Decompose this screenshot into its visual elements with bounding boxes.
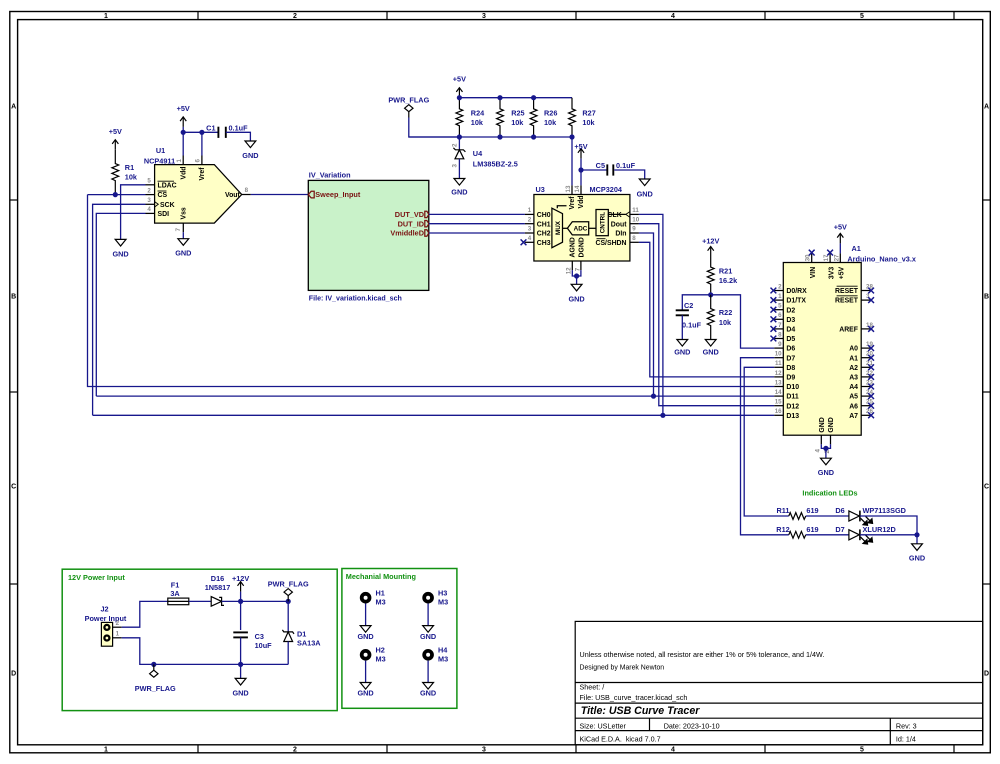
- no-connect X on VIN: [809, 250, 815, 256]
- frame row letters: [11, 104, 989, 678]
- svg-text:CLK: CLK: [608, 212, 622, 219]
- ground (H2): [360, 683, 371, 690]
- ground (C5): [639, 179, 650, 186]
- junction +5V rail R24: [457, 95, 462, 100]
- svg-text:10k: 10k: [471, 118, 484, 127]
- power flag PWR_FLAG (Vref rail): [405, 105, 413, 118]
- svg-text:Vdd: Vdd: [180, 166, 187, 179]
- svg-text:7: 7: [175, 227, 182, 231]
- wire D7 to R12: [741, 358, 789, 535]
- svg-text:A: A: [984, 104, 989, 111]
- svg-text:D11: D11: [786, 394, 798, 401]
- sheet pin VmiddleD: [425, 230, 429, 236]
- junction +5V rail R26: [531, 95, 536, 100]
- mounting hole H4: [424, 651, 432, 659]
- svg-text:5: 5: [860, 747, 864, 754]
- svg-text:16: 16: [775, 408, 782, 415]
- no-connect X on CH3: [521, 239, 527, 245]
- junction ground rail PWR_FLAG: [151, 662, 156, 667]
- svg-text:CH1: CH1: [537, 221, 551, 228]
- wire U3 AGND/DGND join: [572, 270, 581, 276]
- U3 top pin stubs Vref Vdd: [572, 185, 581, 194]
- svg-text:3A: 3A: [170, 589, 180, 598]
- title block outline: [575, 621, 983, 744]
- LED D6 WP7113SGD: [849, 511, 860, 522]
- svg-text:3: 3: [528, 226, 532, 233]
- svg-text:GND: GND: [819, 417, 826, 432]
- svg-text:1N5817: 1N5817: [205, 583, 231, 592]
- svg-text:MUX: MUX: [555, 220, 562, 235]
- graphic box Mechanical Mounting: [342, 569, 457, 709]
- no-connect X: [868, 412, 874, 418]
- junction Vref tap: [199, 130, 204, 135]
- ground (U4): [454, 179, 465, 186]
- svg-text:4: 4: [147, 206, 151, 213]
- op-amp style DAC U1 MCP4911 body: [155, 165, 242, 224]
- wire +5V to U3 Vdd: [580, 159, 582, 186]
- svg-text:D9: D9: [786, 375, 795, 382]
- svg-text:CS: CS: [158, 192, 168, 199]
- svg-text:PWR_FLAG: PWR_FLAG: [135, 684, 176, 693]
- svg-text:11: 11: [775, 360, 782, 367]
- wire H1 to ground: [365, 604, 367, 626]
- svg-text:LDAC: LDAC: [158, 182, 177, 189]
- svg-text:IV_Variation: IV_Variation: [309, 171, 351, 180]
- svg-text:9: 9: [632, 226, 636, 233]
- svg-text:A0: A0: [849, 346, 858, 353]
- svg-text:+5V: +5V: [574, 142, 587, 151]
- svg-text:9: 9: [778, 341, 782, 348]
- svg-text:2: 2: [528, 216, 532, 223]
- svg-text:4: 4: [528, 235, 532, 242]
- IC U3 MCP3204 body: [534, 195, 630, 262]
- svg-text:C3: C3: [255, 632, 264, 641]
- svg-text:C1: C1: [206, 123, 215, 132]
- svg-text:2: 2: [778, 283, 782, 290]
- ground (H3): [423, 626, 434, 633]
- svg-text:R24: R24: [471, 108, 485, 117]
- svg-text:Vdd: Vdd: [578, 195, 585, 208]
- svg-text:+12V: +12V: [702, 237, 719, 246]
- svg-text:PWR_FLAG: PWR_FLAG: [388, 95, 429, 104]
- svg-text:Vss: Vss: [181, 207, 188, 219]
- svg-text:GND: GND: [420, 689, 436, 698]
- svg-text:+12V: +12V: [232, 574, 249, 583]
- frame column numbers: [104, 13, 864, 753]
- svg-text:Designed by Marek Newton: Designed by Marek Newton: [580, 665, 665, 672]
- wire U1 Vout to sheet Sweep_Input: [251, 194, 308, 196]
- no-connect X: [868, 345, 874, 351]
- sheet pin Sweep_Input: [308, 191, 314, 198]
- svg-text:1: 1: [104, 13, 108, 20]
- power +5V (R1 pull-up): [112, 140, 118, 150]
- hierarchical sheet IV_Variation: [308, 180, 429, 290]
- wire LED ground drop: [916, 535, 918, 544]
- svg-text:Vout: Vout: [225, 192, 241, 199]
- svg-text:D8: D8: [786, 365, 795, 372]
- svg-text:R27: R27: [582, 108, 595, 117]
- svg-text:B: B: [11, 294, 16, 301]
- capacitor C1 0.1uF: [218, 127, 225, 138]
- svg-text:M3: M3: [438, 598, 448, 607]
- svg-text:A: A: [11, 104, 16, 111]
- ground (U1 Vss): [178, 239, 189, 246]
- svg-text:D10: D10: [786, 384, 799, 391]
- wire SDI net down: [96, 213, 145, 396]
- svg-text:DIn: DIn: [615, 231, 626, 238]
- wire H4 to ground: [427, 661, 429, 683]
- U3 bottom pin stubs AGND DGND: [572, 261, 581, 270]
- wire U3 DIn down: [639, 233, 654, 396]
- svg-text:10uF: 10uF: [255, 641, 273, 650]
- svg-text:A5: A5: [849, 394, 858, 401]
- wire CS net down and across to Arduino D10: [88, 195, 775, 387]
- resistor R26 10k: [530, 98, 537, 137]
- svg-text:CS/SHDN: CS/SHDN: [595, 240, 626, 247]
- power +5V (resistor network): [456, 88, 462, 98]
- resistor R12 619: [789, 531, 806, 538]
- svg-text:GND: GND: [703, 348, 719, 357]
- svg-text:File: IV_variation.kicad_sch: File: IV_variation.kicad_sch: [309, 295, 402, 303]
- connector J2 Power Input: [101, 622, 112, 646]
- svg-text:A1: A1: [849, 355, 858, 362]
- no-connect X on 3V3: [827, 250, 833, 256]
- A1 left pin stubs D0-D13: [774, 291, 783, 416]
- svg-text:D: D: [11, 671, 16, 678]
- wire LDAC to ground: [121, 185, 146, 240]
- svg-text:RESET: RESET: [835, 288, 859, 295]
- svg-text:D1: D1: [297, 629, 306, 638]
- svg-text:13: 13: [565, 185, 572, 192]
- wire +5V to Arduino: [839, 243, 841, 253]
- svg-text:U1: U1: [156, 146, 165, 155]
- power flag PWR_FLAG (ground rail): [150, 664, 158, 677]
- svg-text:GND: GND: [357, 689, 373, 698]
- svg-text:A4: A4: [849, 384, 858, 391]
- svg-text:6: 6: [195, 159, 202, 163]
- svg-text:3: 3: [147, 197, 151, 204]
- junction Vref rail R25: [497, 134, 502, 139]
- wire fuse to diode D16: [189, 600, 211, 602]
- svg-text:GND: GND: [818, 468, 834, 477]
- svg-text:R1: R1: [125, 163, 134, 172]
- wire D16 to +12V rail: [222, 600, 289, 602]
- svg-text:Dout: Dout: [611, 221, 627, 228]
- ground (C1): [245, 141, 256, 148]
- no-connect X: [868, 384, 874, 390]
- wire H2 to ground: [365, 661, 367, 683]
- ground (LEDs): [912, 544, 923, 551]
- svg-text:SDI: SDI: [158, 211, 170, 218]
- svg-text:C5: C5: [596, 161, 605, 170]
- svg-text:+5V: +5V: [177, 104, 190, 113]
- wire R11 to LED D6: [806, 515, 849, 517]
- junction U3 ground: [574, 273, 579, 278]
- svg-text:VmiddleD: VmiddleD: [390, 229, 424, 238]
- A1 right pin stubs: [861, 291, 870, 416]
- wire to U4 cathode: [458, 137, 460, 150]
- svg-text:R21: R21: [719, 267, 732, 276]
- wire U3 CLK down: [639, 214, 663, 415]
- svg-text:R12: R12: [776, 525, 789, 534]
- svg-text:4: 4: [815, 449, 822, 453]
- wire C3 to ground rail: [240, 637, 242, 664]
- wire C1 to ground: [226, 132, 251, 141]
- svg-text:1: 1: [104, 747, 108, 754]
- wire +12V to C3: [240, 601, 242, 630]
- svg-text:8: 8: [245, 187, 249, 194]
- svg-text:619: 619: [806, 506, 818, 515]
- svg-text:WP7113SGD: WP7113SGD: [863, 506, 906, 515]
- U1 top pin stubs Vdd/Vref: [183, 156, 202, 165]
- U3 internal ADC block: [567, 222, 588, 235]
- wire SDI/DIn net to Arduino D11: [96, 395, 774, 397]
- svg-text:Arduino_Nano_v3.x: Arduino_Nano_v3.x: [847, 254, 916, 263]
- sheet pin DUT_VD: [425, 211, 429, 217]
- svg-text:10k: 10k: [544, 118, 557, 127]
- resistor R11 619: [789, 513, 806, 520]
- svg-text:File: USB_curve_tracer.kicad_s: File: USB_curve_tracer.kicad_sch: [580, 693, 688, 702]
- svg-text:D: D: [984, 671, 989, 678]
- svg-text:MCP3204: MCP3204: [590, 185, 623, 194]
- junction +5V rail R25: [497, 95, 502, 100]
- no-connect X: [868, 374, 874, 380]
- power +12V (supply): [238, 582, 244, 592]
- wire Vref rail: [409, 136, 572, 138]
- wire C2 to ground: [681, 315, 683, 339]
- wire +5V to U1 Vdd: [182, 127, 184, 156]
- junction divider mid: [708, 292, 713, 297]
- svg-text:1: 1: [778, 293, 782, 300]
- no-connect X: [868, 403, 874, 409]
- svg-text:A2: A2: [849, 365, 858, 372]
- svg-text:619: 619: [806, 525, 818, 534]
- junction ground rail C3/GND: [238, 662, 243, 667]
- svg-text:XLUR12D: XLUR12D: [863, 525, 896, 534]
- svg-text:+5V: +5V: [109, 127, 122, 136]
- resistor R24 10k: [456, 98, 463, 137]
- wire Arduino ground drop: [825, 448, 827, 458]
- svg-text:Unless otherwise noted, all re: Unless otherwise noted, all resistor are…: [580, 650, 825, 659]
- power +5V (Arduino): [837, 233, 843, 243]
- power flag PWR_FLAG (+12V): [284, 589, 292, 602]
- svg-text:Rev: 3: Rev: 3: [896, 721, 917, 730]
- svg-text:2: 2: [293, 747, 297, 754]
- svg-text:D7: D7: [835, 525, 844, 534]
- wire U4 anode to ground: [458, 159, 460, 179]
- mounting hole H2: [362, 651, 370, 659]
- wire +5V rail over R24-R27: [459, 97, 572, 99]
- svg-text:R22: R22: [719, 308, 732, 317]
- svg-text:R26: R26: [544, 108, 557, 117]
- diode D16 1N5817: [211, 597, 224, 607]
- svg-text:12: 12: [565, 267, 572, 274]
- svg-text:D16: D16: [211, 574, 224, 583]
- svg-text:1: 1: [176, 159, 183, 163]
- junction +12V / C3: [238, 599, 243, 604]
- no-connect X: [868, 326, 874, 332]
- wire U3 ground drop: [576, 276, 578, 284]
- junction LED cathodes: [914, 532, 919, 537]
- fuse F1 3A: [168, 598, 189, 605]
- svg-text:GND: GND: [637, 189, 653, 198]
- wire PWR_FLAG to Vref rail: [409, 118, 460, 138]
- svg-text:DGND: DGND: [579, 237, 586, 257]
- svg-text:GND: GND: [674, 348, 690, 357]
- ground (H1): [360, 626, 371, 633]
- junction CLK/SCK: [660, 413, 665, 418]
- U3 left pin stubs CH0-CH3: [525, 214, 534, 242]
- svg-text:15: 15: [775, 399, 782, 406]
- junction Vref rail R24/U4: [457, 134, 462, 139]
- wire +12V arrow stem: [240, 592, 242, 602]
- svg-text:R11: R11: [777, 506, 790, 515]
- wire U1 Vss to ground: [182, 232, 184, 239]
- power +12V (divider): [708, 247, 714, 257]
- svg-text:D1/TX: D1/TX: [786, 298, 806, 305]
- svg-text:D0/RX: D0/RX: [786, 288, 807, 295]
- svg-text:GND: GND: [451, 188, 467, 197]
- junction Vdd/+5V: [181, 130, 186, 135]
- svg-text:GND: GND: [357, 632, 373, 641]
- svg-text:14: 14: [775, 389, 782, 396]
- svg-text:3V3: 3V3: [828, 267, 835, 279]
- svg-text:H3: H3: [438, 589, 447, 598]
- svg-text:2: 2: [293, 13, 297, 20]
- svg-text:SCK: SCK: [160, 202, 175, 209]
- svg-text:GND: GND: [175, 249, 191, 258]
- junction +12V / D1: [286, 599, 291, 604]
- svg-text:10k: 10k: [719, 318, 732, 327]
- U3 internal CNTRL block: [596, 210, 608, 236]
- svg-text:C: C: [11, 484, 16, 491]
- no-connect X: [771, 316, 777, 322]
- junction R1/CS net: [113, 192, 118, 197]
- IC A1 Arduino Nano body: [783, 263, 861, 436]
- svg-text:DUT_ID: DUT_ID: [398, 219, 424, 228]
- svg-text:12: 12: [775, 370, 782, 377]
- svg-text:H4: H4: [438, 646, 448, 655]
- capacitor C5 0.1uF: [607, 164, 613, 175]
- svg-text:16.2k: 16.2k: [719, 276, 738, 285]
- wire +12V to D1 cathode: [287, 601, 289, 632]
- svg-text:CNTRL: CNTRL: [599, 212, 606, 233]
- wire R12 to LED D7: [806, 534, 849, 536]
- svg-text:D12: D12: [786, 403, 799, 410]
- svg-text:CH2: CH2: [537, 231, 551, 238]
- no-connect X: [771, 336, 777, 342]
- svg-text:+5V: +5V: [453, 75, 466, 84]
- svg-text:+5V: +5V: [839, 266, 846, 279]
- svg-text:H2: H2: [376, 646, 385, 655]
- U3 right pin stubs CLK Dout DIn CS: [630, 214, 639, 242]
- wire +5V to U1 Vref: [201, 132, 203, 155]
- svg-text:Id: 1/4: Id: 1/4: [896, 734, 916, 743]
- wire SCK net down: [93, 204, 146, 415]
- graphic box 12V Power Input: [62, 569, 337, 710]
- wire SCK/CLK net to Arduino D13: [93, 414, 775, 416]
- no-connect X: [771, 307, 777, 313]
- svg-text:Size: USLetter: Size: USLetter: [580, 721, 627, 730]
- wire CS net to U1 pin 2: [88, 194, 146, 196]
- svg-text:11: 11: [632, 207, 639, 214]
- svg-text:GND: GND: [232, 688, 248, 697]
- resistor R22 10k: [707, 295, 714, 340]
- svg-text:8: 8: [632, 235, 636, 242]
- svg-text:GND: GND: [420, 632, 436, 641]
- svg-text:KiCad E.D.A. kicad 7.0.7: KiCad E.D.A. kicad 7.0.7: [580, 734, 661, 743]
- svg-text:Sheet: /: Sheet: /: [580, 682, 605, 691]
- svg-text:GND: GND: [828, 417, 835, 432]
- wire VmiddleD to U3 CH2: [429, 232, 525, 234]
- no-connect X: [868, 297, 874, 303]
- ground (power input): [235, 678, 246, 685]
- svg-text:M3: M3: [438, 655, 448, 664]
- wire H3 to ground: [427, 604, 429, 626]
- svg-text:Vref: Vref: [199, 167, 206, 181]
- mounting hole H1: [362, 594, 370, 602]
- power +5V (U3 Vdd): [578, 149, 584, 159]
- svg-text:10: 10: [632, 216, 639, 223]
- U1 bottom pin stub Vss pin 7: [182, 223, 184, 232]
- svg-text:F1: F1: [171, 580, 180, 589]
- svg-text:J2: J2: [101, 604, 109, 613]
- svg-text:GND: GND: [568, 295, 584, 304]
- svg-text:1: 1: [116, 631, 120, 638]
- svg-text:6: 6: [778, 312, 782, 319]
- resistor R25 10k: [497, 98, 504, 137]
- no-connect X: [771, 288, 777, 294]
- svg-text:2: 2: [116, 620, 120, 627]
- svg-text:5: 5: [147, 178, 151, 185]
- svg-text:Vref: Vref: [569, 196, 576, 210]
- wire to C5: [581, 169, 607, 171]
- svg-text:5: 5: [860, 13, 864, 20]
- ground (U3): [571, 284, 582, 291]
- svg-text:Power Input: Power Input: [85, 614, 127, 623]
- svg-text:R25: R25: [511, 108, 524, 117]
- svg-text:VIN: VIN: [810, 267, 817, 279]
- svg-text:27: 27: [833, 254, 840, 261]
- svg-text:2: 2: [452, 143, 459, 147]
- svg-text:RESET: RESET: [835, 298, 859, 305]
- svg-text:4: 4: [671, 747, 675, 754]
- svg-text:D6: D6: [786, 346, 795, 353]
- wire divider to Arduino D6: [711, 295, 775, 348]
- no-connect X: [868, 393, 874, 399]
- svg-text:0.1uF: 0.1uF: [682, 320, 702, 329]
- svg-text:M3: M3: [376, 655, 386, 664]
- no-connect X: [771, 297, 777, 303]
- svg-text:GND: GND: [112, 249, 128, 258]
- svg-text:10k: 10k: [511, 118, 524, 127]
- wire J2 pin2 to fuse: [122, 601, 168, 627]
- svg-text:10: 10: [775, 351, 782, 358]
- svg-text:2: 2: [147, 187, 151, 194]
- mounting hole H3: [424, 594, 432, 602]
- wire Vref rail to U3 Vref pin: [571, 137, 573, 185]
- resistor R21 16.2k: [707, 257, 714, 295]
- power +5V (U1 Vdd): [180, 117, 186, 127]
- svg-text:SA13A: SA13A: [297, 639, 321, 648]
- resistor R1 10k: [112, 150, 119, 195]
- svg-text:AREF: AREF: [839, 327, 858, 334]
- capacitor C2 0.1uF: [676, 310, 689, 315]
- svg-text:C: C: [984, 484, 989, 491]
- svg-text:1: 1: [528, 207, 532, 214]
- svg-text:D5: D5: [786, 336, 795, 343]
- svg-text:7: 7: [778, 322, 782, 329]
